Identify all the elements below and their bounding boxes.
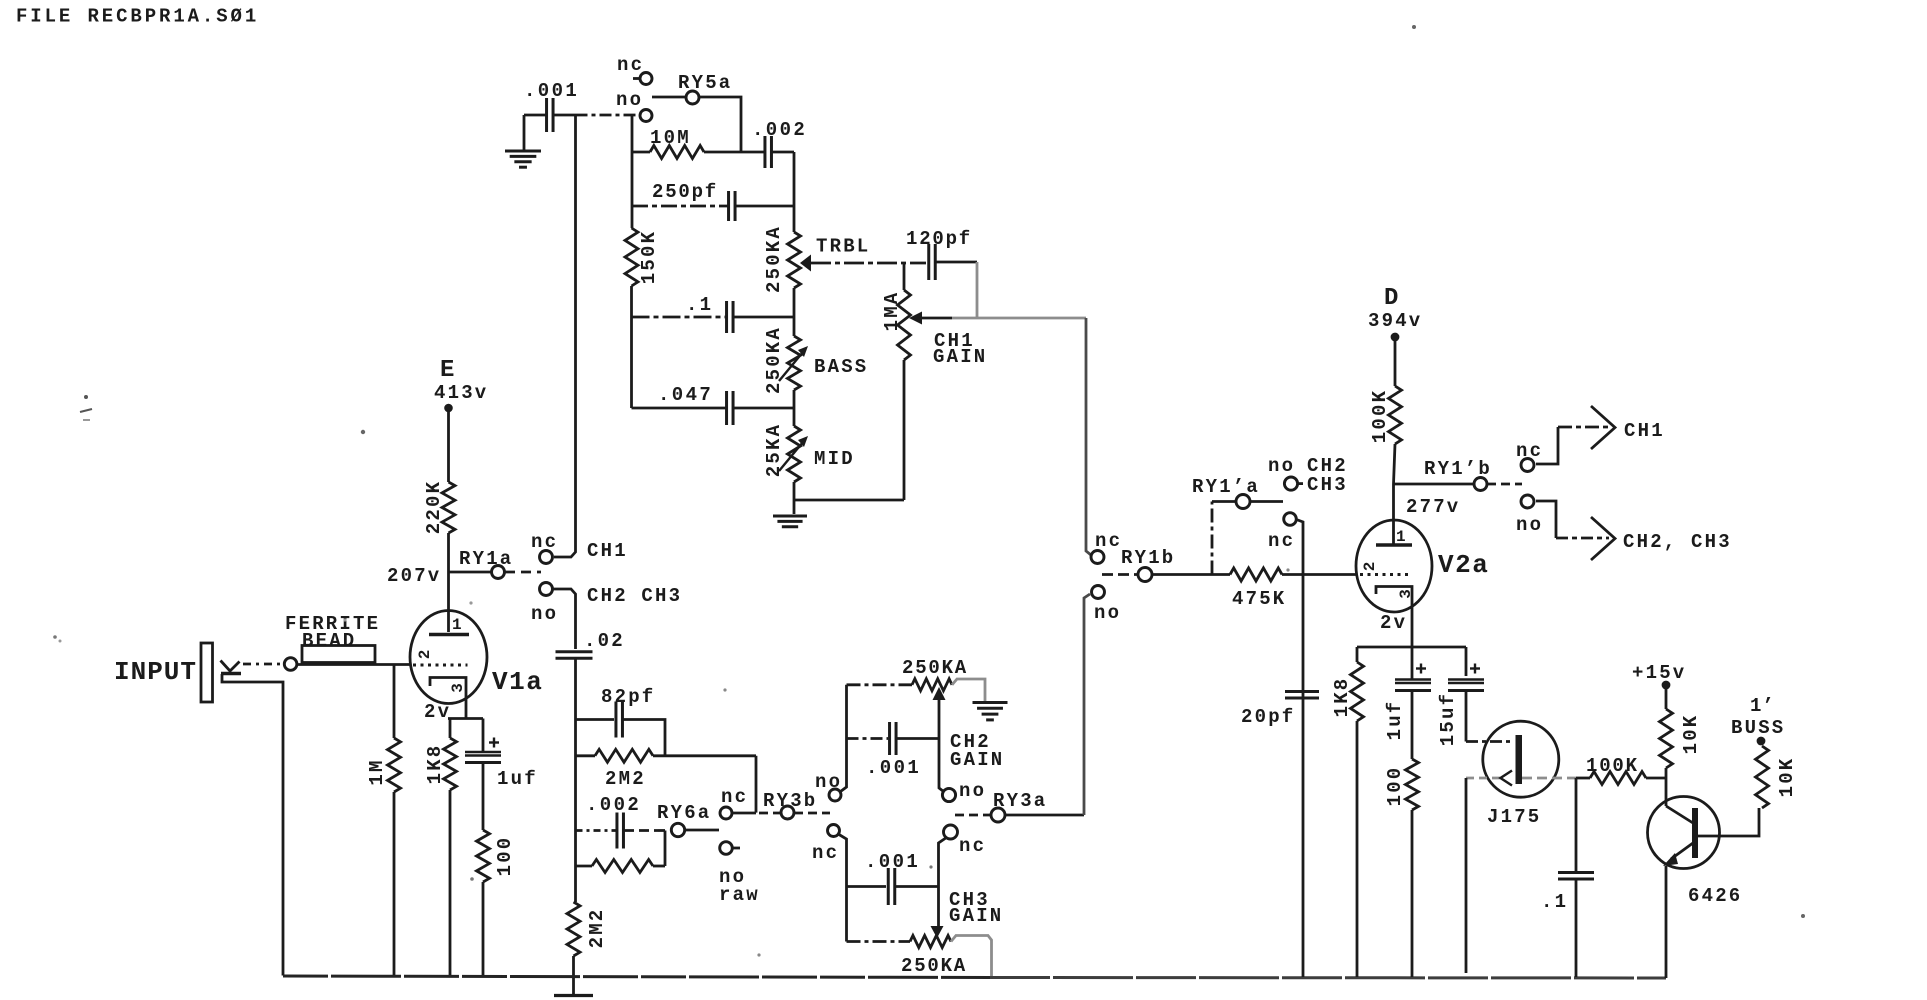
relay RY6a label: [657, 802, 711, 824]
relay RY3b label: [763, 790, 817, 812]
input jack tip contact: [221, 661, 242, 674]
resistor 1M rotated label: [366, 758, 388, 785]
wire rail RY3a up to RY1b no: [1084, 594, 1090, 815]
svg-text:CH1: CH1: [1624, 420, 1665, 442]
resistor 2M2 vertical rotated label: [586, 908, 608, 949]
wire drain down to .1: [1575, 778, 1578, 872]
wire nc to CH3 stem: [939, 838, 947, 929]
relay RY1'a common contact: [1236, 495, 1250, 509]
wire RY1a row: [449, 571, 492, 574]
wire 100K to plate: [1394, 444, 1396, 544]
svg-text:FILE RECBPR1A.SØ1: FILE RECBPR1A.SØ1: [16, 6, 259, 28]
capacitor 120pf label: [906, 228, 972, 250]
resistor 10M: [650, 146, 704, 159]
resistor 1K8: [444, 738, 457, 790]
node input contact: [284, 658, 297, 671]
wire 1M to bus: [393, 792, 396, 976]
capacitor .002 (lower) label: [586, 794, 641, 816]
node nc contact RY3b: [720, 807, 732, 819]
svg-text:RY1a: RY1a: [459, 548, 513, 570]
capacitor 1uf label: [497, 768, 538, 790]
capacitor 1uf (V2a) plus: [1416, 664, 1426, 674]
wire 1K8 to bus: [449, 790, 452, 976]
resistor 1K8 V2a: [1351, 662, 1364, 721]
tube V2a pin 3 label: [1397, 589, 1415, 599]
tube V2a pin 2 label: [1361, 562, 1379, 572]
svg-text:1’: 1’: [1750, 695, 1775, 717]
svg-text:MID: MID: [814, 448, 855, 470]
svg-text:2: 2: [416, 650, 434, 660]
wire grid to 1M: [393, 665, 396, 739]
svg-text:1: 1: [1396, 528, 1406, 546]
tube V1a grid wire: [413, 664, 468, 667]
node no contact RY3a: [942, 788, 955, 801]
svg-text:CH2 CH3: CH2 CH3: [587, 585, 682, 607]
capacitor .047: [727, 391, 734, 425]
svg-text:.047: .047: [658, 384, 713, 406]
svg-text:GAIN: GAIN: [949, 905, 1003, 927]
label BASS: [814, 356, 868, 378]
wire .001 to ground: [523, 115, 526, 150]
relay RY3a label: [993, 790, 1047, 812]
ferrite bead body: [302, 646, 375, 663]
svg-text:CH3: CH3: [1307, 474, 1348, 496]
resistor 2M2 (82pf) label: [605, 768, 646, 790]
capacitor .001 CH2: [890, 722, 897, 755]
label no (RY1a): [531, 603, 558, 625]
svg-text:no: no: [959, 780, 986, 802]
transistor J175 source wire: [1466, 777, 1500, 780]
svg-text:120pf: 120pf: [906, 228, 972, 250]
wire rail node A down: [631, 116, 634, 229]
svg-text:BASS: BASS: [814, 356, 868, 378]
label nc (RY3b lower): [812, 842, 839, 864]
svg-text:2v: 2v: [1380, 612, 1407, 634]
resistor 10K rotated label: [1680, 714, 1702, 755]
svg-text:2M2: 2M2: [586, 908, 608, 949]
wire CH2 wiper stem: [939, 700, 944, 792]
svg-text:100: 100: [1384, 766, 1406, 807]
label CH2 GAIN: [950, 731, 1004, 771]
wire 150K bottom rail: [630, 286, 633, 408]
wire resistor row leads: [576, 865, 666, 868]
svg-text:250KA: 250KA: [902, 657, 968, 679]
svg-text:1uf: 1uf: [1384, 700, 1406, 741]
tube V1a envelope: [410, 611, 487, 704]
capacitor 82pf: [616, 702, 623, 738]
label TRBL: [816, 236, 870, 258]
wire RY3a to rail: [1005, 814, 1084, 817]
label 2v (V1a cathode): [424, 701, 451, 723]
node E voltage 413v: [434, 382, 488, 404]
svg-text:1K8: 1K8: [1331, 677, 1353, 718]
relay RY5a label: [678, 72, 732, 94]
label no (RY1'b): [1516, 514, 1543, 536]
transistor 6426 base wire: [1698, 808, 1759, 836]
svg-text:nc: nc: [1095, 530, 1122, 552]
resistor 1K8 rotated label: [424, 744, 446, 785]
svg-text:nc: nc: [1268, 530, 1295, 552]
resistor 2M2 vertical: [567, 902, 580, 956]
relay RY1'a label: [1192, 476, 1260, 498]
label nc (RY1'b): [1516, 440, 1543, 462]
label 277v: [1406, 496, 1460, 518]
wire chain bottom to 1MA: [794, 360, 904, 500]
svg-text:nc: nc: [959, 835, 986, 857]
potentiometer TRBL wiper arrow: [800, 255, 811, 272]
wire RY1a arm: [505, 571, 541, 574]
wire .002 right lead: [772, 151, 795, 154]
potentiometer MID wiper arrow: [779, 436, 808, 471]
label CH3 GAIN: [949, 889, 1003, 927]
tube V1a pin 3 label: [449, 683, 467, 693]
wire 1uf to 100: [1411, 691, 1414, 760]
capacitor 1uf (V2a) rotated label: [1384, 700, 1406, 741]
wire .001 CH2 right: [897, 737, 940, 740]
relay RY3a common contact: [991, 808, 1005, 822]
tube V1a cathode: [430, 678, 466, 719]
wire 100 V2a to bus: [1411, 810, 1414, 977]
wire 1K8 top: [449, 719, 452, 739]
svg-text:GAIN: GAIN: [933, 346, 987, 368]
potentiometer 1MA element: [898, 290, 911, 360]
potentiometer 1MA wiper arrow: [909, 312, 922, 325]
wire 220K to plate: [447, 533, 450, 632]
capacitor .047 label: [658, 384, 713, 406]
input jack body: [201, 643, 213, 702]
capacitor .02: [556, 652, 593, 659]
svg-text:2: 2: [1361, 562, 1379, 572]
capacitor 1uf plus mark: [489, 738, 499, 748]
wire .002 row left: [576, 829, 617, 832]
ground for .001: [505, 151, 541, 167]
svg-text:+15v: +15v: [1632, 662, 1686, 684]
relay RY1'b label: [1424, 458, 1492, 480]
wire 1uf to 100: [482, 763, 485, 831]
resistor 100K (J175) label: [1586, 755, 1639, 777]
wire nc to CH1 chevron: [1536, 427, 1609, 464]
capacitor .002: [765, 136, 772, 168]
output chevron CH1: [1591, 406, 1615, 449]
wire .001 CH3 right: [896, 885, 939, 888]
svg-text:RY6a: RY6a: [657, 802, 711, 824]
label CH2 CH3 net: [587, 585, 682, 607]
svg-text:TRBL: TRBL: [816, 236, 870, 258]
svg-text:no: no: [616, 89, 643, 111]
node no contact RY3b: [829, 789, 841, 801]
ground bottom rail: [554, 994, 593, 997]
transistor J175 gate arrow: [1501, 771, 1513, 786]
svg-text:2M2: 2M2: [605, 768, 646, 790]
capacitor .001 CH3: [888, 868, 895, 905]
relay RY1a label: [459, 548, 513, 570]
capacitor 1uf: [465, 752, 501, 763]
resistor 100 (V2a) rotated label: [1384, 766, 1406, 807]
node nc contact of RY5a: [633, 73, 652, 85]
resistor 100K plate: [1389, 386, 1402, 444]
resistor 1K8 (V2a) rotated label: [1331, 677, 1353, 718]
node no contact RY1'a: [1284, 477, 1303, 490]
svg-text:.002: .002: [586, 794, 641, 816]
output chevron CH2 CH3: [1591, 517, 1615, 560]
wire rail .001 to CH1 contact: [554, 115, 576, 557]
resistor 100 rotated label: [494, 836, 516, 877]
label 1' BUSS: [1731, 695, 1785, 739]
wire 82pf row left: [576, 718, 615, 721]
wire nc to junction: [732, 812, 756, 815]
node no contact RY1'b: [1521, 495, 1534, 508]
svg-text:3: 3: [1397, 589, 1415, 599]
node +15v dot: [1662, 681, 1671, 690]
transistor 6426 label: [1688, 885, 1742, 907]
wire 10K to collector: [1665, 768, 1668, 806]
wire RY1b arm: [1102, 573, 1138, 576]
wire input to grid: [297, 663, 410, 666]
resistor 10K BUSS: [1756, 746, 1769, 808]
wire .001 right lead: [553, 114, 576, 117]
label no (RY3a): [959, 780, 986, 802]
label MID: [814, 448, 855, 470]
resistor 1M: [388, 738, 401, 792]
label 207v: [387, 565, 441, 587]
wire 1K8 top lead: [1356, 647, 1359, 662]
capacitor 120pf: [929, 244, 936, 280]
wire 15uf to J175 gate: [1466, 691, 1514, 742]
node no contact of RY5a: [640, 110, 652, 122]
label CH1 output: [1624, 420, 1665, 442]
svg-text:82pf: 82pf: [601, 686, 655, 708]
node nc contact RY3a: [944, 825, 958, 839]
svg-text:D: D: [1384, 285, 1398, 312]
wire RY3b arm left: [759, 812, 780, 815]
wire 1MA top lead: [903, 262, 906, 290]
capacitor 15uf: [1448, 680, 1484, 691]
wire jack sleeve: [222, 674, 283, 976]
transistor J175 label: [1487, 806, 1541, 828]
wire no to CH2CH3 chevron: [1536, 501, 1609, 538]
capacitor .1 (J175) label: [1541, 891, 1568, 913]
capacitor .001 (CH3) label: [865, 851, 920, 873]
potentiometer MID 25KA rotated label: [763, 423, 785, 477]
capacitor 20pf: [1285, 692, 1319, 699]
wire D to 100K: [1394, 341, 1397, 386]
wire CH2 row: [847, 683, 913, 686]
resistor 10M label: [650, 127, 691, 149]
node nc contact RY1'a CH1: [1284, 513, 1297, 526]
wire 1uf top: [482, 719, 485, 752]
tube V1a pin 2 label: [416, 650, 434, 660]
relay RY1b label: [1121, 547, 1175, 569]
wire BASS to MID: [793, 390, 796, 426]
wire 1K8 to bus: [1356, 721, 1359, 977]
tube V1a pin 1 label: [452, 616, 462, 634]
potentiometer CH3 wiper arrow: [931, 926, 944, 938]
svg-text:10K: 10K: [1680, 714, 1702, 755]
svg-text:nc: nc: [721, 786, 748, 808]
node nc contact RY1'b: [1521, 459, 1534, 472]
svg-text:2v: 2v: [424, 701, 451, 723]
svg-text:250pf: 250pf: [652, 181, 718, 203]
node no contact CH2 CH3: [540, 583, 553, 596]
wire RY5a to 10M node: [699, 97, 741, 152]
node no raw contact: [720, 842, 740, 855]
wire .001 CH3 row: [847, 885, 887, 888]
wire CH1 contact down rail: [1296, 520, 1303, 978]
svg-text:1: 1: [452, 616, 462, 634]
title text FILE RECBPR1A.S01: [16, 6, 259, 28]
svg-text:no: no: [531, 603, 558, 625]
node nc contact RY3b lower: [828, 825, 840, 837]
capacitor .1 label: [686, 294, 713, 316]
wire CH1 GAIN wiper row: [922, 317, 1086, 320]
wire cathode bus V2a: [1357, 646, 1466, 649]
svg-text:CH2, CH3: CH2, CH3: [1623, 531, 1732, 553]
wire RY3a arm: [955, 814, 990, 817]
wire rail .02 down: [574, 659, 577, 903]
tube V2a pin 1 label: [1396, 528, 1406, 546]
relay RY3b common contact: [781, 806, 794, 819]
svg-text:RY1b: RY1b: [1121, 547, 1175, 569]
resistor 475K: [1230, 568, 1282, 581]
label no raw: [719, 866, 760, 906]
node E dot: [444, 404, 453, 413]
svg-text:no: no: [1094, 602, 1121, 624]
ground tone stack: [773, 516, 807, 527]
wire .001 to relay RY5a node: [576, 114, 641, 117]
svg-text:V2a: V2a: [1438, 550, 1489, 580]
svg-text:INPUT: INPUT: [114, 657, 197, 687]
wire RY1a branch top: [1212, 502, 1236, 504]
wire 100 to bus: [482, 882, 485, 976]
svg-text:207v: 207v: [387, 565, 441, 587]
tube V2a plate: [1376, 543, 1412, 547]
capacitor .001: [547, 98, 554, 132]
svg-text:RY1’a: RY1’a: [1192, 476, 1260, 498]
label no (RY3b): [815, 771, 842, 793]
svg-text:.001: .001: [866, 757, 921, 779]
potentiometer TRBL 250KA rotated label: [763, 225, 785, 293]
node nc contact CH1: [540, 551, 553, 564]
svg-text:20pf: 20pf: [1241, 706, 1295, 728]
svg-text:V1a: V1a: [492, 667, 543, 697]
potentiometer BASS 250KA element: [788, 336, 801, 390]
wire RY1'b arm: [1487, 483, 1522, 486]
node E label: [440, 357, 454, 384]
resistor unlabeled 2M2 row: [592, 860, 653, 873]
wire RY1a branch up: [1211, 503, 1214, 575]
potentiometer CH3 250KA label: [901, 955, 967, 977]
resistor 220K: [442, 482, 455, 533]
wire +15v to 10K: [1665, 689, 1668, 709]
capacitor .1 J175: [1558, 873, 1594, 880]
wire bottom bus: [283, 976, 1666, 978]
resistor 100K rotated label: [1369, 389, 1391, 443]
label INPUT: [114, 657, 197, 687]
label nc (RY1a): [531, 531, 558, 553]
svg-text:250KA: 250KA: [763, 225, 785, 293]
svg-text:RY5a: RY5a: [678, 72, 732, 94]
resistor 100: [477, 830, 490, 882]
tube V1a plate: [429, 633, 469, 637]
label no (RY1b): [1094, 602, 1121, 624]
wire .001 left lead: [524, 114, 547, 117]
relay RY1b common contact: [1138, 568, 1152, 582]
tube V2a cathode: [1376, 587, 1412, 681]
wire RY3b no up rail: [841, 685, 847, 792]
node D label: [1384, 285, 1398, 312]
capacitor .001 value label: [524, 80, 579, 102]
resistor 150K: [625, 228, 638, 286]
resistor 220K rotated label: [423, 480, 445, 534]
node no contact RY1b: [1092, 586, 1105, 599]
capacitor 1uf V2a: [1395, 680, 1431, 691]
svg-text:CH1: CH1: [587, 540, 628, 562]
label nc (RY3a): [959, 835, 986, 857]
wire 475K to V2a grid: [1282, 573, 1356, 576]
wire right rail to TRBL: [793, 152, 796, 232]
svg-text:10K: 10K: [1776, 757, 1798, 798]
svg-text:277v: 277v: [1406, 496, 1460, 518]
svg-text:no: no: [1268, 455, 1295, 477]
potentiometer CH2 250KA label: [902, 657, 968, 679]
wire E to 220K: [447, 412, 450, 482]
resistor 100K J175: [1590, 772, 1646, 785]
label no CH2 (RY1'a): [1268, 455, 1348, 477]
capacitor .002 lower: [617, 813, 624, 849]
svg-text:.1: .1: [686, 294, 713, 316]
wire 2M2 to bottom ground: [572, 956, 575, 995]
resistor 100 V2a: [1406, 759, 1419, 810]
node D dot: [1391, 333, 1400, 342]
capacitor 15uf plus: [1470, 664, 1480, 674]
relay RY1a common contact: [492, 566, 505, 579]
node BUSS dot: [1757, 737, 1766, 746]
wire chain bottom: [793, 482, 796, 514]
tube V2a grid wire: [1360, 573, 1410, 576]
svg-text:.02: .02: [584, 630, 625, 652]
wire TRBL chain 1: [793, 288, 796, 336]
svg-text:150K: 150K: [638, 230, 660, 284]
svg-text:3: 3: [449, 683, 467, 693]
wire CH1 GAIN rail down to RY1b nc: [1086, 318, 1091, 555]
potentiometer CH3 250KA element: [910, 936, 951, 948]
wire CH2 pot to ground: [952, 679, 985, 701]
wire 120pf corner down: [976, 262, 979, 318]
relay RY6a contact: [671, 823, 684, 836]
node nc contact RY1b: [1091, 551, 1104, 564]
label nc (RY3b): [721, 786, 748, 808]
label nc (RY1'a): [1268, 530, 1295, 552]
resistor 475K label: [1232, 588, 1286, 610]
tube V1a label: [492, 667, 543, 697]
wire 100K to junction: [1646, 777, 1666, 780]
label FERRITE BEAD: [285, 613, 380, 652]
label +15v: [1632, 662, 1686, 684]
ground CH2 pot: [973, 703, 1008, 720]
label CH3 (RY1'a): [1307, 474, 1348, 496]
svg-text:no: no: [1516, 514, 1543, 536]
resistor 10K (+15v): [1660, 709, 1673, 768]
wire CH3 row left: [847, 940, 911, 943]
svg-text:250KA: 250KA: [901, 955, 967, 977]
tube V2a label: [1438, 550, 1489, 580]
wire .002 row right: [624, 829, 665, 832]
transistor 6426 emitter: [1663, 843, 1693, 866]
svg-text:GAIN: GAIN: [950, 749, 1004, 771]
capacitor .001 (CH2) label: [866, 757, 921, 779]
wire .047 row: [632, 407, 795, 410]
wire .002 to resistor join: [664, 831, 667, 867]
